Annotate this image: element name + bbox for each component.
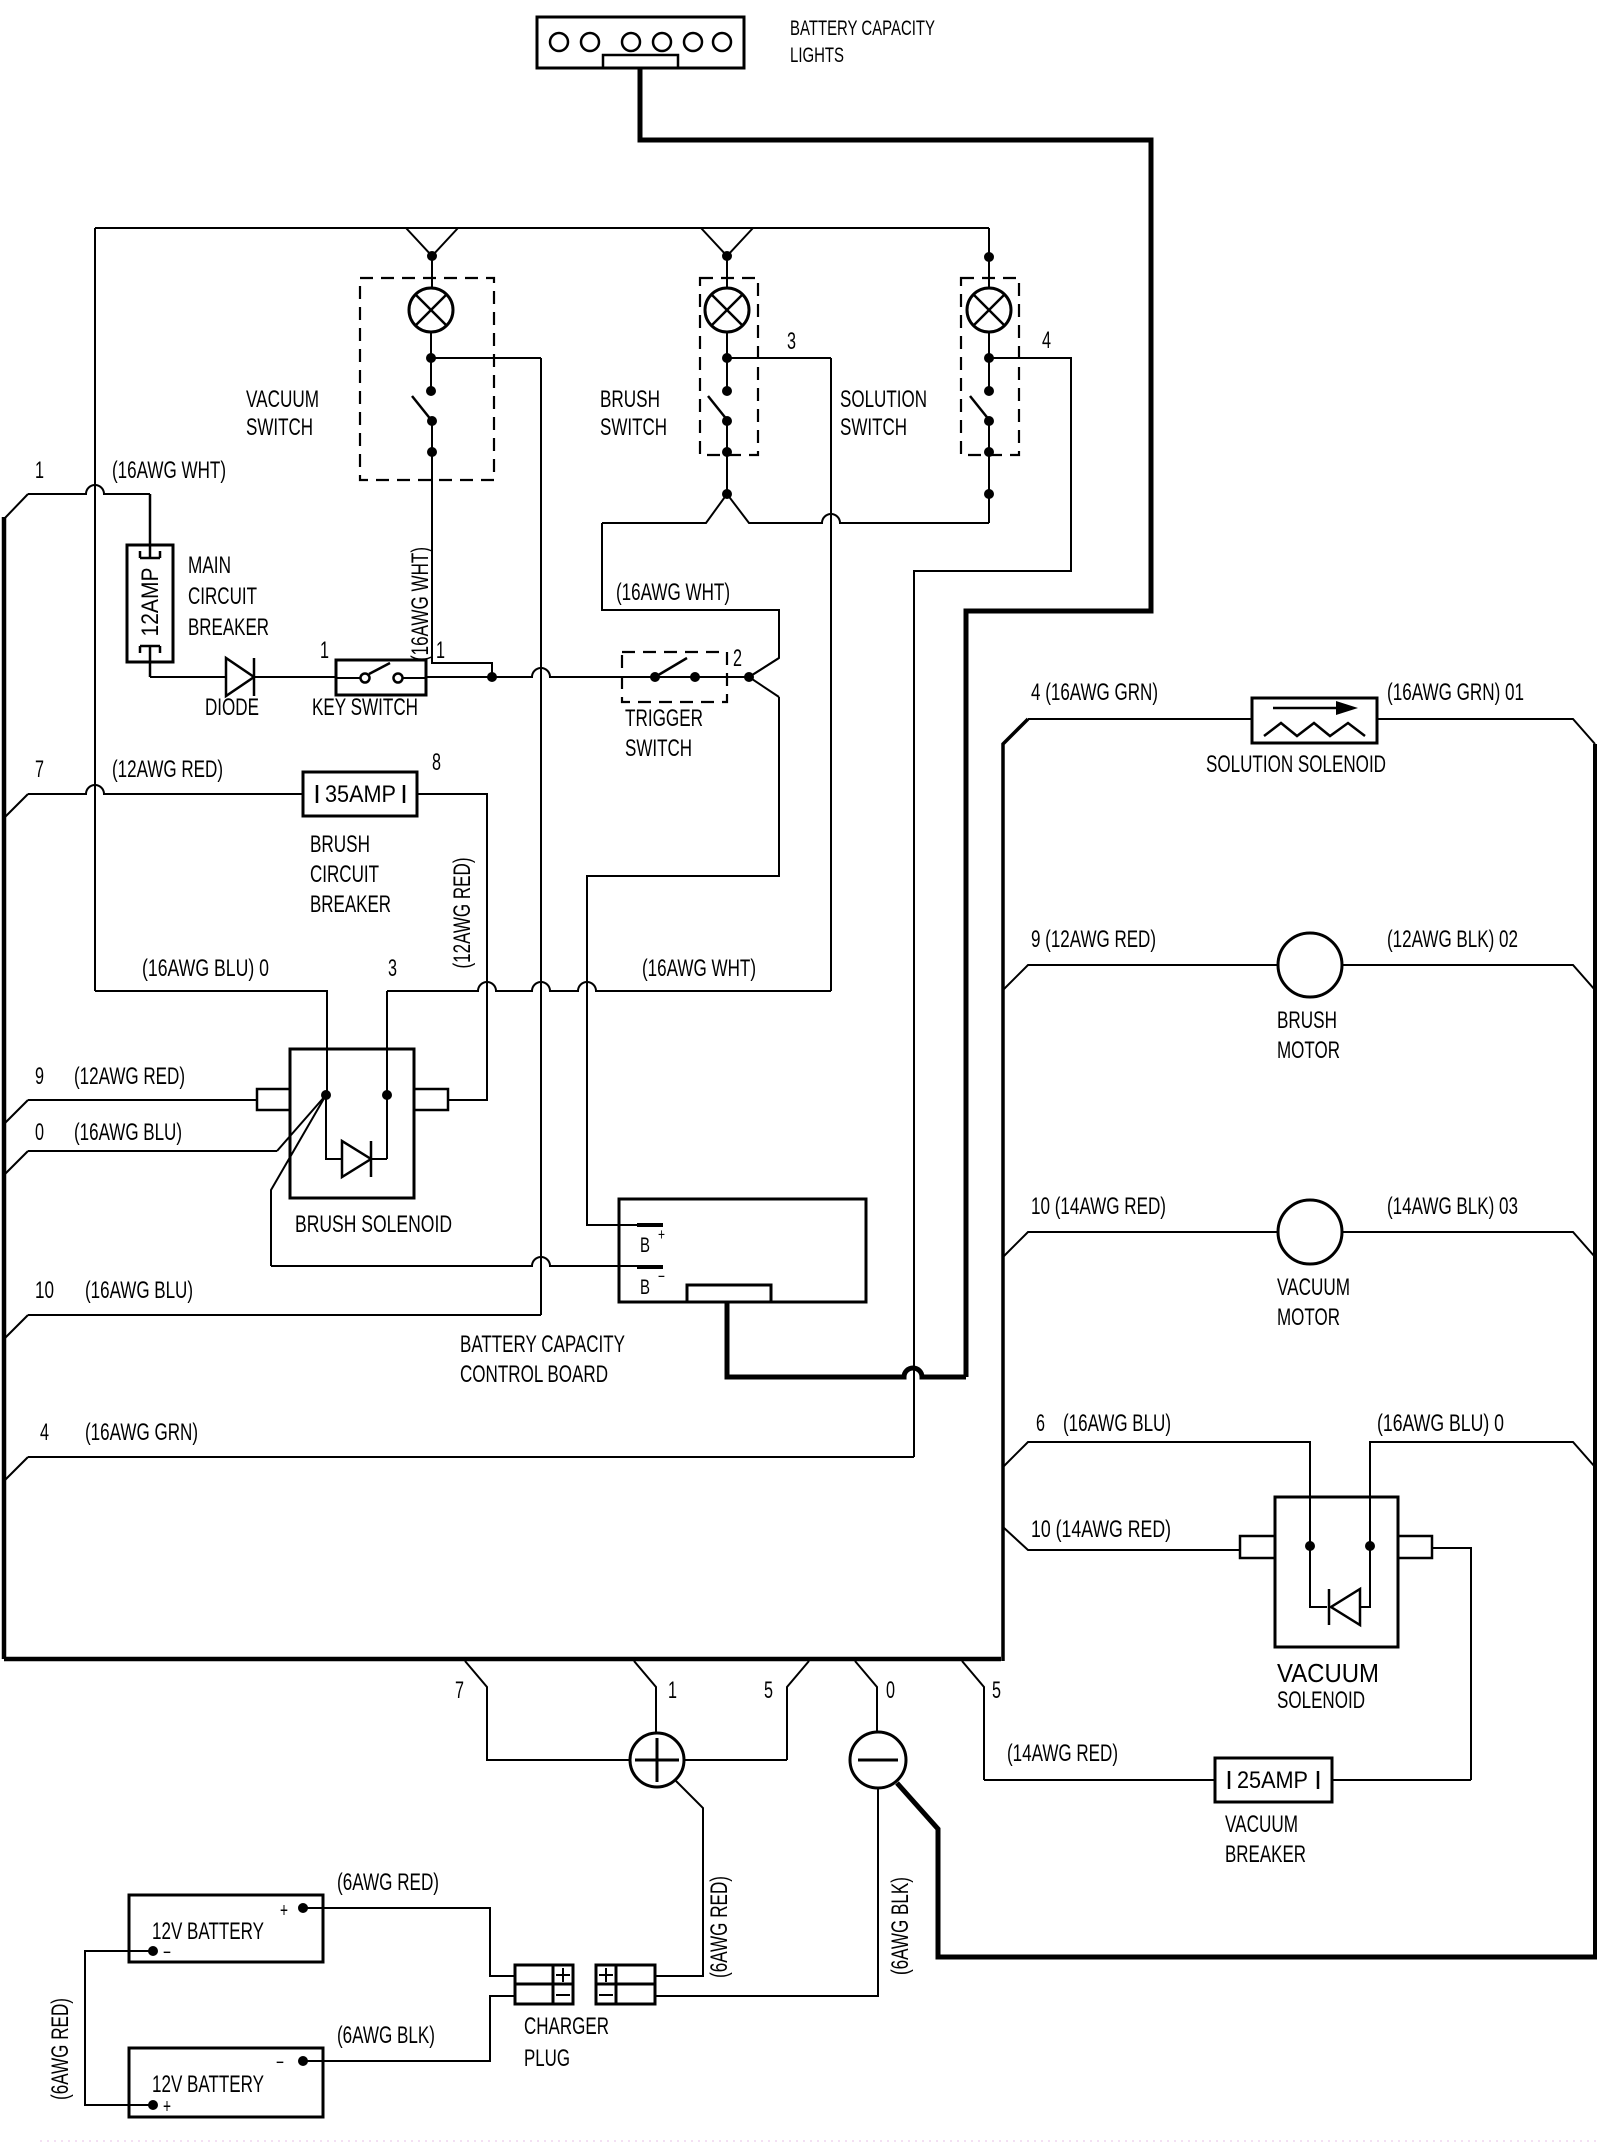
solution solenoid arrow xyxy=(1273,707,1338,710)
node brush branch xyxy=(722,353,732,363)
svg-text:(16AWG BLU) 0: (16AWG BLU) 0 xyxy=(1377,1410,1504,1437)
wire frame bottom border bus xyxy=(4,1657,1001,1662)
wire net 3 lower run with hops xyxy=(386,991,388,1095)
svg-text:(16AWG BLU): (16AWG BLU) xyxy=(1063,1410,1171,1437)
svg-text:BREAKER: BREAKER xyxy=(310,891,391,918)
svg-text:7: 7 xyxy=(35,756,44,783)
vacuum lamp L1 xyxy=(409,288,453,332)
svg-text:SOLENOID: SOLENOID xyxy=(1277,1687,1365,1714)
svg-text:0: 0 xyxy=(886,1677,895,1704)
control board bottom tab xyxy=(687,1285,771,1302)
svg-text:1: 1 xyxy=(668,1677,677,1704)
svg-text:BREAKER: BREAKER xyxy=(188,614,269,641)
svg-text:+: + xyxy=(163,2096,171,2118)
brush lamp L2 xyxy=(705,288,749,332)
wire thick bus segment with hop over net4 riser xyxy=(727,1302,966,1377)
svg-text:(16AWG WHT): (16AWG WHT) xyxy=(642,955,756,982)
svg-text:BRUSH: BRUSH xyxy=(600,386,660,413)
svg-text:BATTERY CAPACITY: BATTERY CAPACITY xyxy=(460,1331,625,1358)
trigger blade xyxy=(655,658,687,677)
svg-text:9: 9 xyxy=(35,1063,44,1090)
svg-text:1: 1 xyxy=(35,457,44,484)
svg-text:VACUUM: VACUUM xyxy=(1277,1658,1379,1688)
wire frame right rail to solution solenoid xyxy=(1003,719,1028,1661)
wire vacuum motor rung right xyxy=(1342,1232,1595,1257)
brush motor M1 xyxy=(1278,933,1342,997)
trigger left pole xyxy=(650,672,660,682)
wire brush exit to V junction xyxy=(726,452,728,494)
svg-text:3: 3 xyxy=(388,955,397,982)
svg-text:10 (14AWG RED): 10 (14AWG RED) xyxy=(1031,1516,1171,1543)
wire 6AWG RED battery1 to plug xyxy=(303,1908,515,1976)
wire net 4 rung to solution solenoid xyxy=(1028,718,1252,720)
wire thick negative bus to right rail xyxy=(897,1783,1597,1957)
svg-text:B: B xyxy=(640,1234,650,1257)
node brush V junction xyxy=(722,489,732,499)
wire vacuum switch lower lead xyxy=(431,421,433,452)
svg-text:(12AWG BLK) 02: (12AWG BLK) 02 xyxy=(1387,926,1518,953)
svg-text:(6AWG RED): (6AWG RED) xyxy=(337,1869,439,1896)
B- terminal bar xyxy=(637,1265,663,1269)
wire solution solenoid to right rail xyxy=(1377,719,1595,744)
svg-text:BRUSH: BRUSH xyxy=(1277,1007,1337,1034)
svg-text:12V BATTERY: 12V BATTERY xyxy=(152,1918,264,1945)
wire 16AWG WHT switch tie line with hop xyxy=(602,494,989,523)
svg-text:1: 1 xyxy=(436,637,445,664)
node brush contact upper xyxy=(722,386,732,396)
svg-text:BRUSH SOLENOID: BRUSH SOLENOID xyxy=(295,1211,452,1238)
wire trigger output diagonals xyxy=(749,658,779,697)
wire drop to solution lamp xyxy=(988,228,990,256)
wire net 1 exit xyxy=(634,1661,656,1733)
brush solenoid internal diode xyxy=(326,1095,342,1159)
node brush box exit xyxy=(722,447,732,457)
svg-text:(12AWG RED): (12AWG RED) xyxy=(112,756,223,783)
brush switch blade xyxy=(708,396,728,421)
svg-text:+: + xyxy=(658,1225,665,1244)
wire net 5 exit right xyxy=(962,1661,984,1780)
node junction vacuum top xyxy=(427,251,437,261)
wire 16AWG WHT vacuum to key switch line xyxy=(432,452,492,677)
wire breaker to solenoid riser xyxy=(1332,1779,1471,1781)
wire net 0 exit xyxy=(855,1661,877,1732)
solution lamp L3 xyxy=(967,288,1011,332)
key switch blade xyxy=(369,663,390,674)
wire V-drop to vacuum lamp xyxy=(406,228,458,256)
node solution contact upper xyxy=(984,386,994,396)
trigger switch dashed enclosure S5 xyxy=(622,652,727,702)
svg-text:B: B xyxy=(640,1276,650,1299)
svg-text:SOLUTION: SOLUTION xyxy=(840,386,927,413)
wire right rail thick xyxy=(1593,744,1597,1957)
wire brush switch lower lead xyxy=(726,421,728,452)
svg-text:VACUUM: VACUUM xyxy=(1225,1811,1298,1838)
svg-text:6: 6 xyxy=(1036,1410,1045,1437)
wire 16AWG WHT top distribution xyxy=(95,227,989,229)
node vacuum solenoid left contact xyxy=(1305,1541,1315,1551)
svg-text:2: 2 xyxy=(733,645,742,672)
trigger right pole xyxy=(690,672,700,682)
svg-text:4: 4 xyxy=(40,1419,49,1446)
svg-text:MOTOR: MOTOR xyxy=(1277,1037,1340,1064)
wire 6AWG BLK negative to charger plug xyxy=(655,1788,878,1996)
solution solenoid coil zigzag xyxy=(1264,723,1365,736)
svg-text:(16AWG GRN): (16AWG GRN) xyxy=(85,1419,198,1446)
wire B- from solenoid contact xyxy=(271,1095,326,1266)
vacuum solenoid right contact stub xyxy=(1398,1536,1432,1558)
node vacuum contact upper xyxy=(426,386,436,396)
wire net 10 riser xyxy=(540,358,542,1315)
wire vacuum solenoid right to breaker xyxy=(1432,1548,1471,1780)
key switch left pole xyxy=(361,674,370,683)
battery negative terminal circle xyxy=(850,1732,906,1788)
connector tab xyxy=(603,55,678,68)
wire 6AWG RED positive to charger plug xyxy=(655,1781,703,1976)
svg-text:(14AWG RED): (14AWG RED) xyxy=(1007,1740,1118,1767)
vacuum switch blade xyxy=(412,396,432,421)
wire net 0 diagonal to contact xyxy=(277,1095,326,1151)
svg-text:SWITCH: SWITCH xyxy=(625,735,692,762)
key switch pole stubs xyxy=(336,677,361,679)
svg-text:DIODE: DIODE xyxy=(205,694,259,721)
wire 6AWG BLK battery2 to plug xyxy=(303,1996,515,2061)
wire net 0 from left border xyxy=(4,1151,28,1175)
connector pin circles xyxy=(550,33,731,51)
svg-text:BATTERY CAPACITY: BATTERY CAPACITY xyxy=(790,17,935,40)
node key junction xyxy=(487,672,497,682)
svg-text:(16AWG WHT): (16AWG WHT) xyxy=(112,457,226,484)
svg-text:(16AWG WHT): (16AWG WHT) xyxy=(616,579,730,606)
breaker bottom terminal xyxy=(140,646,160,677)
wire net 7 exit xyxy=(465,1661,630,1760)
brush solenoid left contact stub xyxy=(257,1089,290,1110)
svg-text:PLUG: PLUG xyxy=(524,2045,570,2072)
wire key switch to trigger switch with hop xyxy=(426,668,749,677)
wire left rail 16AWG WHT xyxy=(94,228,96,991)
brush switch dashed enclosure S2 xyxy=(700,278,758,455)
node junction brush top xyxy=(722,251,732,261)
svg-text:7: 7 xyxy=(455,1677,464,1704)
svg-text:−: − xyxy=(658,1267,665,1286)
wire diode to key switch xyxy=(254,676,336,678)
wire net 6 rung xyxy=(1003,1442,1310,1546)
charger plug right block xyxy=(596,1965,655,2004)
breaker top terminal xyxy=(140,494,160,558)
svg-text:BRUSH: BRUSH xyxy=(310,831,370,858)
wire solution exit down to tie line xyxy=(988,452,990,523)
svg-text:12V BATTERY: 12V BATTERY xyxy=(152,2071,264,2098)
charger plug left block xyxy=(515,1965,573,2004)
svg-text:4 (16AWG GRN): 4 (16AWG GRN) xyxy=(1031,679,1158,706)
wire between terminals xyxy=(684,1759,787,1761)
svg-text:CIRCUIT: CIRCUIT xyxy=(188,583,257,610)
svg-text:(12AWG RED): (12AWG RED) xyxy=(449,858,476,969)
wire net 5 to vacuum breaker xyxy=(984,1779,1215,1781)
svg-text:25AMP: 25AMP xyxy=(1237,1767,1308,1794)
main circuit breaker CB1 xyxy=(127,545,173,662)
wire net 7 from left border xyxy=(4,794,28,818)
node junction solution top xyxy=(984,252,994,262)
svg-text:TRIGGER: TRIGGER xyxy=(625,705,703,732)
wire net 3 riser xyxy=(830,358,832,991)
svg-text:BREAKER: BREAKER xyxy=(1225,1841,1306,1868)
wire trigger feed jog xyxy=(602,523,779,677)
wire vacuum switch gap feed xyxy=(430,358,432,391)
svg-text:LIGHTS: LIGHTS xyxy=(790,44,844,67)
node vacuum box exit xyxy=(427,447,437,457)
svg-text:(6AWG RED): (6AWG RED) xyxy=(706,1876,733,1978)
wire net 4 branch to riser xyxy=(914,358,1071,1457)
wire vacuum branch to net10 riser xyxy=(431,357,541,359)
node vacuum contact lower xyxy=(427,416,437,426)
node vacuum solenoid right contact xyxy=(1365,1541,1375,1551)
battery B1 minus terminal xyxy=(148,1946,158,1956)
svg-text:VACUUM: VACUUM xyxy=(1277,1274,1350,1301)
svg-text:5: 5 xyxy=(992,1677,1001,1704)
wire net 10 rung to vacuum solenoid xyxy=(1003,1527,1240,1550)
battery B1 12V xyxy=(129,1895,323,1962)
svg-text:(6AWG RED): (6AWG RED) xyxy=(47,1998,74,2100)
svg-text:(14AWG BLK) 03: (14AWG BLK) 03 xyxy=(1387,1193,1518,1220)
brush solenoid K1 xyxy=(290,1049,414,1198)
wire thick bus battery lights to control board xyxy=(640,68,1151,1377)
svg-text:10: 10 xyxy=(35,1277,54,1304)
svg-text:(12AWG RED): (12AWG RED) xyxy=(74,1063,185,1090)
node solution tie xyxy=(984,489,994,499)
wire net 10 from left border xyxy=(4,1315,28,1339)
solution switch blade xyxy=(970,396,990,421)
brush solenoid right contact stub xyxy=(414,1089,448,1110)
node brush contact lower xyxy=(722,416,732,426)
svg-text:CHARGER: CHARGER xyxy=(524,2013,609,2040)
wire solution switch gap feed xyxy=(988,358,990,391)
svg-text:SWITCH: SWITCH xyxy=(246,414,313,441)
wire brush switch gap feed xyxy=(726,358,728,391)
wire brush lamp leads xyxy=(726,256,728,288)
vacuum switch dashed enclosure S1 xyxy=(360,278,494,480)
node solution contact lower xyxy=(984,416,994,426)
svg-text:(6AWG BLK): (6AWG BLK) xyxy=(887,1877,914,1975)
brush circuit breaker CB2 35AMP xyxy=(303,772,417,816)
solution switch dashed enclosure S3 xyxy=(961,278,1019,455)
svg-text:SWITCH: SWITCH xyxy=(840,414,907,441)
wire net 0 rung right xyxy=(1370,1442,1595,1546)
wire 16AWG WHT rail to solenoid contact xyxy=(95,991,327,1095)
svg-text:(16AWG GRN) 01: (16AWG GRN) 01 xyxy=(1387,679,1524,706)
svg-text:SWITCH: SWITCH xyxy=(600,414,667,441)
wire net 9 from left border xyxy=(4,1100,28,1124)
wire 6AWG RED battery interconnect xyxy=(85,1951,153,2105)
svg-text:3: 3 xyxy=(787,328,796,355)
diode D1 xyxy=(226,658,254,696)
battery B2 plus terminal xyxy=(148,2100,158,2110)
svg-text:−: − xyxy=(163,1942,171,1964)
svg-text:(16AWG BLU): (16AWG BLU) xyxy=(74,1119,182,1146)
node solution box exit xyxy=(984,447,994,457)
B+ terminal bar xyxy=(637,1223,663,1227)
wire net 1 from left border xyxy=(4,494,28,519)
svg-text:−: − xyxy=(276,2052,284,2074)
wire brush motor rung left xyxy=(1003,965,1278,990)
wire net 8 breaker to brush solenoid coil xyxy=(417,794,487,1100)
svg-text:KEY SWITCH: KEY SWITCH xyxy=(312,694,418,721)
page footer dotted line xyxy=(40,2140,1600,2142)
svg-text:(16AWG WHT): (16AWG WHT) xyxy=(407,547,434,661)
svg-text:8: 8 xyxy=(432,749,441,776)
wire solution lamp leads xyxy=(988,257,990,288)
vacuum solenoid left contact stub xyxy=(1240,1536,1275,1558)
svg-text:9 (12AWG RED): 9 (12AWG RED) xyxy=(1031,926,1156,953)
wire frame left border bus xyxy=(2,517,7,1659)
svg-text:+: + xyxy=(280,1900,288,1922)
svg-text:10 (14AWG RED): 10 (14AWG RED) xyxy=(1031,1193,1166,1220)
svg-text:(16AWG BLU) 0: (16AWG BLU) 0 xyxy=(142,955,269,982)
node vacuum branch xyxy=(426,353,436,363)
vacuum solenoid internal diode xyxy=(1310,1546,1370,1607)
svg-text:CONTROL BOARD: CONTROL BOARD xyxy=(460,1361,608,1388)
solution solenoid K2 xyxy=(1252,698,1377,743)
svg-text:(6AWG BLK): (6AWG BLK) xyxy=(337,2022,435,2049)
svg-text:SOLUTION SOLENOID: SOLUTION SOLENOID xyxy=(1206,751,1386,778)
vacuum breaker CB3 25AMP xyxy=(1215,1758,1332,1802)
svg-text:MOTOR: MOTOR xyxy=(1277,1304,1340,1331)
svg-text:VACUUM: VACUUM xyxy=(246,386,319,413)
wire V-drop to brush lamp xyxy=(701,228,753,256)
wire vacuum lamp leads xyxy=(431,256,433,288)
key switch right pole xyxy=(394,674,403,683)
svg-text:1: 1 xyxy=(320,637,329,664)
wire net 4 from left border xyxy=(4,1457,28,1481)
battery positive terminal circle xyxy=(630,1733,684,1787)
wire trigger to B+ sense xyxy=(587,697,779,1225)
wire brush motor rung right xyxy=(1342,965,1595,990)
wire net 3 branch xyxy=(727,357,831,359)
key switch S4 xyxy=(336,660,426,695)
node solution branch xyxy=(984,353,994,363)
svg-text:35AMP: 35AMP xyxy=(325,781,396,808)
wire net 5 exit left xyxy=(787,1661,809,1760)
wire breaker to diode xyxy=(150,676,226,678)
svg-text:(16AWG BLU): (16AWG BLU) xyxy=(85,1277,193,1304)
wire vacuum motor rung left xyxy=(1003,1232,1278,1257)
svg-text:MAIN: MAIN xyxy=(188,552,231,579)
node trigger output xyxy=(744,672,754,682)
svg-text:4: 4 xyxy=(1042,327,1051,354)
battery B2 12V xyxy=(129,2048,323,2117)
node brush solenoid right contact xyxy=(382,1090,392,1100)
svg-text:12AMP: 12AMP xyxy=(137,568,164,637)
wire solution switch lower lead xyxy=(988,421,990,452)
svg-text:0: 0 xyxy=(35,1119,44,1146)
battery capacity control board U1 xyxy=(619,1199,866,1302)
battery capacity lights connector J1 xyxy=(537,17,744,68)
vacuum solenoid K3 xyxy=(1275,1497,1398,1647)
vacuum motor M2 xyxy=(1278,1200,1342,1264)
svg-text:CIRCUIT: CIRCUIT xyxy=(310,861,379,888)
svg-text:5: 5 xyxy=(764,1677,773,1704)
node brush solenoid left contact xyxy=(321,1090,331,1100)
